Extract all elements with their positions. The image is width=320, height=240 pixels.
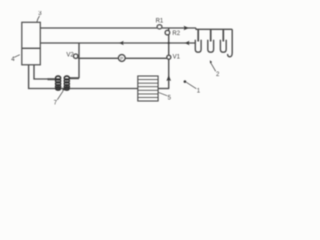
wire V1 vertical bus <box>168 28 170 89</box>
wire top bus <box>40 28 196 29</box>
svg-text:2: 2 <box>216 72 220 78</box>
label 2 leader arrowhead <box>210 60 212 63</box>
load box stripes <box>138 80 158 98</box>
wire transformer right terminal <box>70 77 80 79</box>
wire meter right segment <box>125 57 167 59</box>
arrow left on second wire at meter column <box>119 41 124 45</box>
meter P circle <box>118 55 125 62</box>
arrow right on top wire <box>184 26 189 31</box>
svg-text:1: 1 <box>197 88 201 94</box>
node V1 circle <box>167 55 171 59</box>
svg-text:V1: V1 <box>173 55 181 61</box>
label 5 leader <box>158 92 167 96</box>
comb top bar <box>196 28 233 30</box>
wire transformer left terminal bar <box>48 78 56 80</box>
label 4 leader <box>14 55 19 58</box>
transformer coil 7 right lobe loops <box>64 76 69 90</box>
label 7 leader arrowhead <box>62 88 65 91</box>
svg-text:7: 7 <box>54 101 58 107</box>
label 3 leader <box>37 16 40 22</box>
wire meter left segment <box>78 57 119 59</box>
wire bus elbow to load box <box>158 88 169 90</box>
power supply box 3 <box>22 22 41 65</box>
svg-text:R1: R1 <box>156 19 164 25</box>
comb stem 3 <box>222 29 224 41</box>
wire B from box bottom to bottom rail <box>29 65 138 89</box>
box divider <box>22 47 41 49</box>
comb stem 2 <box>210 29 212 41</box>
svg-text:P: P <box>120 56 123 61</box>
comb stem 1 <box>197 29 199 41</box>
wire stub A from box to transformer top <box>34 65 48 79</box>
svg-text:3: 3 <box>38 11 42 17</box>
junction dot bus and second wire <box>168 42 170 44</box>
label 7 leader <box>57 91 63 100</box>
node R1 ellipse <box>157 25 162 29</box>
cup 3 <box>220 40 226 52</box>
label 1 leader <box>186 82 196 89</box>
label 1 leader dot <box>184 80 187 83</box>
cup 1 <box>195 40 201 52</box>
node R2 circle <box>165 30 170 35</box>
svg-text:4: 4 <box>11 57 15 63</box>
svg-text:R2: R2 <box>172 31 180 37</box>
wire V2 riser <box>78 43 80 78</box>
label 2 leader <box>211 63 216 72</box>
wire second bus <box>40 42 195 44</box>
transformer coil 7 left lobe loops <box>56 76 61 90</box>
arrow up on V1 bus <box>166 75 171 81</box>
cup 2 <box>208 40 214 52</box>
svg-text:5: 5 <box>168 95 172 101</box>
arrow left on second wire <box>185 41 190 45</box>
svg-text:V2: V2 <box>66 52 74 58</box>
load box 5 striped <box>138 76 158 101</box>
right J hook outlet <box>228 29 233 56</box>
node V2 circle <box>74 54 78 58</box>
